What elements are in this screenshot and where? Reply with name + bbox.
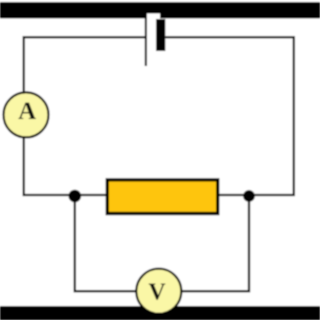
node left junction dot — [69, 190, 82, 203]
svg-text:A: A — [18, 98, 36, 125]
wire voltmeter branch — [75, 196, 249, 291]
node right junction dot — [243, 190, 255, 202]
bottom letterbox bar — [0, 306, 320, 320]
battery notch (white cutout in top bar) — [147, 14, 160, 19]
wire main loop — [24, 37, 294, 195]
top letterbox bar — [0, 2, 320, 19]
resistor R1 — [107, 180, 218, 214]
ammeter A1 circle — [4, 92, 49, 137]
svg-text:V: V — [148, 279, 166, 305]
battery B1 thin plate (long) — [145, 14, 147, 67]
battery B1 thick plate (short) — [156, 19, 165, 51]
voltmeter V1 circle — [136, 269, 181, 314]
